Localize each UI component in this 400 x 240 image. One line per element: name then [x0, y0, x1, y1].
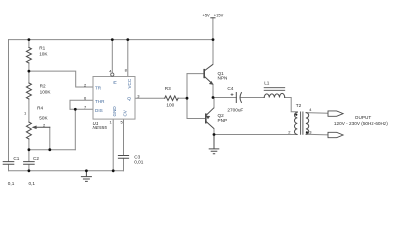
- resistor R2: [26, 83, 31, 99]
- transistor Q1 emitter arrowhead: [209, 81, 214, 85]
- wire R2-R4 link: [28, 99, 30, 122]
- svg-text:0,1: 0,1: [29, 181, 36, 186]
- node Q2 collector: [213, 133, 216, 136]
- wire wiper descender: [49, 127, 51, 149]
- wire Q2 collector down: [213, 129, 215, 135]
- potentiometer R4 wiper arrow: [35, 126, 50, 128]
- node ground rail: [85, 169, 88, 172]
- svg-text:T2: T2: [296, 103, 302, 108]
- wire top rail: [9, 39, 214, 41]
- wire left border: [8, 40, 10, 162]
- node DIS junction: [74, 108, 77, 111]
- node supply rail: [212, 38, 215, 41]
- wire pin4 reset to rail: [111, 40, 113, 73]
- svg-text:GND: GND: [112, 106, 117, 117]
- transformer phase dot primary: [295, 114, 297, 116]
- svg-text:R4: R4: [37, 106, 43, 111]
- node C2 rail: [28, 169, 31, 172]
- svg-text:THR: THR: [95, 99, 105, 104]
- transformer phase dot secondary: [306, 131, 308, 133]
- inductor L1 core lines: [264, 88, 285, 91]
- wire left border lower: [8, 165, 10, 171]
- svg-text:DIS: DIS: [95, 108, 103, 113]
- transistor Q2 emitter arrowhead: [206, 116, 211, 120]
- wire base bus: [186, 74, 188, 119]
- node pin8 rail: [126, 38, 129, 41]
- potentiometer R4: [26, 122, 31, 139]
- svg-text:C2: C2: [33, 156, 39, 161]
- svg-text:NE555: NE555: [93, 125, 108, 130]
- svg-text:0,1: 0,1: [8, 181, 15, 186]
- node R1 top: [28, 38, 31, 41]
- wire L1 to transformer: [285, 98, 298, 112]
- wire R1-R2 link: [28, 63, 30, 83]
- svg-text:C1: C1: [13, 156, 19, 161]
- transformer T2 secondary winding: [306, 113, 309, 135]
- wire secondary top to connector: [306, 112, 328, 115]
- svg-text:TR: TR: [95, 86, 102, 91]
- svg-text:C4: C4: [227, 86, 233, 91]
- capacitor C3: [118, 156, 128, 159]
- wire TR tap: [29, 71, 93, 87]
- svg-text:R3: R3: [165, 86, 171, 91]
- svg-text:100: 100: [166, 103, 174, 108]
- wire R column upper: [28, 40, 30, 48]
- wire node to C4: [213, 97, 236, 99]
- wire pot bottom net: [29, 149, 75, 151]
- capacitor C1: [3, 162, 14, 165]
- capacitor C4 plates: [236, 93, 241, 103]
- wire pin3 output to R3: [135, 97, 165, 99]
- wire Q2 emitter to node: [213, 98, 215, 108]
- wire Q2 base: [187, 118, 206, 120]
- transformer T2 core: [301, 112, 303, 135]
- wire C3 to rail: [123, 158, 125, 170]
- wire Q1 emitter to node: [212, 84, 214, 97]
- node R3 base bus: [186, 97, 189, 100]
- node wiper junction: [48, 148, 51, 151]
- ground under bottom rail: [81, 171, 92, 182]
- wire pin1 gnd to rail: [112, 119, 114, 171]
- node pot bottom junction: [28, 148, 31, 151]
- svg-text:+15V: +15V: [214, 13, 224, 18]
- reset pin bubble: [111, 73, 114, 76]
- wire R3 to base bus: [178, 97, 187, 99]
- wire supply stub: [212, 18, 214, 40]
- output port connector bottom: [328, 132, 343, 137]
- wire THR: [70, 100, 93, 109]
- svg-text:Q: Q: [127, 96, 131, 101]
- pot wiper arrowhead: [32, 126, 37, 130]
- power supply bar: [210, 17, 215, 19]
- svg-text:+5V: +5V: [203, 13, 211, 18]
- wire pin8 vcc to rail: [127, 40, 129, 77]
- node pin4 rail: [111, 38, 114, 41]
- svg-text:L1: L1: [264, 80, 270, 85]
- svg-text:10K: 10K: [39, 51, 48, 56]
- wire Q1 base: [187, 73, 204, 75]
- wire pot bottom: [28, 139, 30, 161]
- svg-text:OUPUT: OUPUT: [355, 115, 372, 120]
- wire bottom rail: [9, 170, 124, 172]
- svg-text:50K: 50K: [39, 116, 48, 121]
- svg-text:0,01: 0,01: [134, 160, 144, 165]
- transformer T2 primary winding: [294, 112, 297, 135]
- transistor Q2: [206, 108, 214, 129]
- label C4 polarity: [231, 93, 234, 96]
- wire pin5 cv to C3: [123, 119, 125, 155]
- wire C2 to rail: [28, 165, 30, 171]
- capacitor C2: [24, 162, 35, 165]
- svg-text:R2: R2: [40, 84, 46, 89]
- svg-text:CV: CV: [123, 109, 128, 116]
- svg-text:2700uF: 2700uF: [227, 107, 243, 112]
- svg-text:R1: R1: [39, 45, 45, 50]
- wire wiper riser: [74, 109, 76, 149]
- inductor L1 coil: [264, 93, 285, 97]
- svg-text:NPN: NPN: [218, 76, 228, 81]
- wire secondary bottom to connector: [306, 133, 328, 136]
- ground under Q2: [209, 135, 220, 154]
- node R1 R2 junction: [28, 70, 31, 73]
- node pin1 rail: [112, 169, 115, 172]
- resistor R1: [26, 48, 31, 64]
- output port connector top: [328, 111, 343, 116]
- op-amp U1 NE555 body: [93, 77, 135, 120]
- svg-text:VCC: VCC: [127, 78, 132, 88]
- svg-text:120V - 230V (50Hz-60Hz): 120V - 230V (50Hz-60Hz): [334, 121, 388, 126]
- svg-text:100K: 100K: [40, 90, 52, 95]
- wire DIS: [70, 108, 93, 110]
- node push-pull output: [212, 96, 215, 99]
- resistor R3: [165, 96, 178, 101]
- wire bottom to transformer primary: [214, 134, 297, 136]
- svg-text:PNP: PNP: [218, 118, 228, 123]
- transistor Q1: [204, 64, 213, 84]
- wire supply to Q1 collector: [212, 40, 214, 65]
- wire C4 to L1: [241, 97, 265, 99]
- node dots: [28, 38, 216, 172]
